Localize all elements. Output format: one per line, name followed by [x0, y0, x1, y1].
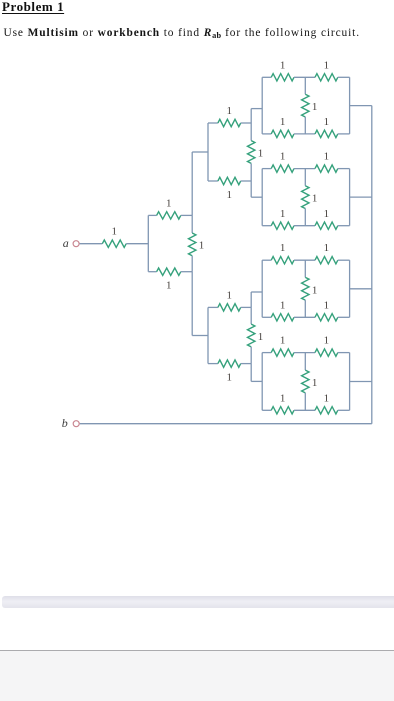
cell 3 wire vertical resistor to bottom node: [304, 300, 306, 317]
right bus wire: [371, 106, 373, 424]
resistor (1 ohm, level-2 lower lower branch): [218, 360, 241, 367]
resistor (1 ohm, level-2 upper upper branch): [218, 119, 241, 126]
cell 2 right edge wire: [349, 169, 351, 226]
svg-text:1: 1: [324, 242, 330, 254]
cell 3 bottom-left wire: [262, 316, 271, 318]
cell 4 bottom middle wire: [294, 409, 315, 411]
wire node to R4: [191, 215, 193, 233]
resistor (1 ohm, vertical level-2 lower): [248, 324, 255, 347]
svg-text:1: 1: [258, 331, 264, 343]
cell 1 top middle wire: [294, 76, 315, 78]
resistor R3 (1 ohm, lower branch level-1): [157, 268, 181, 275]
wire up to cell 1 input: [250, 109, 252, 123]
cell 1 right edge wire: [349, 77, 351, 134]
svg-text:1: 1: [324, 300, 330, 312]
resistor (1 ohm, cell 1 bottom-left): [271, 130, 294, 137]
resistor (1 ohm, cell 3 bottom-right): [315, 314, 338, 321]
cell 1 top-left wire: [262, 76, 271, 78]
svg-text:1: 1: [227, 372, 233, 384]
resistor (1 ohm, cell 3 bottom-left): [271, 314, 294, 321]
cell 3 top-right wire: [338, 259, 350, 261]
wire to branch resistor: [208, 180, 218, 182]
wire R2 to node: [181, 214, 192, 216]
wire bus to terminal b: [80, 423, 372, 425]
cell 1 bottom middle wire: [294, 133, 315, 135]
resistor R1 (1 ohm, series from a): [102, 240, 126, 247]
wire a to R1: [80, 243, 103, 245]
wire to branch resistor: [208, 306, 218, 308]
wire node to vertical resistor: [250, 123, 252, 141]
wire down to cell 4 input: [250, 364, 252, 382]
cell 2 bottom-right wire: [338, 225, 350, 227]
cell 1 wire top node to vertical resistor: [304, 77, 306, 94]
jog wire to level-2 lower split: [192, 335, 208, 337]
resistor (1 ohm, cell 4 bottom-left): [271, 407, 294, 414]
wire up to level-2 upper: [191, 152, 193, 215]
resistor (1 ohm, cell 2 bottom-left): [271, 222, 294, 229]
cell 1 top-right wire: [338, 76, 350, 78]
svg-text:1: 1: [280, 208, 286, 220]
wire to R2: [148, 214, 156, 216]
wire down to level-2 lower: [191, 272, 193, 336]
resistor (1 ohm, cell 1 bottom-right): [315, 130, 338, 137]
wire branch resistor to node: [241, 306, 252, 308]
cell 3 wire top node to vertical resistor: [304, 260, 306, 277]
wire R4 to node: [191, 256, 193, 272]
cell 4 right edge wire: [349, 353, 351, 411]
wire to branch resistor: [208, 363, 218, 365]
svg-text:1: 1: [324, 208, 330, 220]
cell 4 top-left wire: [262, 352, 271, 354]
resistor (1 ohm, cell 2 top-left): [271, 165, 294, 172]
svg-text:1: 1: [280, 242, 286, 254]
resistor (1 ohm, cell 4 bottom-right): [315, 407, 338, 414]
cell 1 bottom-right wire: [338, 133, 350, 135]
cell 4 output stub wire: [350, 381, 372, 383]
resistor (1 ohm, cell 2 vertical): [302, 186, 309, 209]
cell 4 top-right wire: [338, 352, 350, 354]
svg-text:1: 1: [227, 189, 233, 201]
jog wire to cell 1: [251, 108, 262, 110]
cell 3 top-left wire: [262, 259, 271, 261]
resistor (1 ohm, level-2 upper lower branch): [218, 177, 241, 184]
level-1 split vertical wire: [147, 215, 149, 271]
wire vertical resistor to node: [250, 163, 252, 181]
level-2 upper split vertical wire: [207, 123, 209, 181]
resistor (1 ohm, cell 2 top-right): [315, 165, 338, 172]
resistor (1 ohm, vertical level-2 upper): [248, 141, 255, 164]
cell 3 right edge wire: [349, 260, 351, 317]
svg-text:1: 1: [312, 284, 318, 296]
cell 2 output stub wire: [350, 196, 372, 198]
resistor (1 ohm, cell 4 top-right): [315, 349, 338, 356]
svg-text:1: 1: [312, 377, 318, 389]
svg-text:1: 1: [166, 197, 172, 209]
jog wire to cell 3: [251, 291, 262, 293]
svg-text:b: b: [62, 416, 68, 430]
resistor (1 ohm, cell 4 top-left): [271, 349, 294, 356]
wire vertical resistor to node: [250, 347, 252, 364]
svg-text:1: 1: [280, 300, 286, 312]
svg-text:1: 1: [258, 148, 264, 160]
svg-text:1: 1: [199, 239, 205, 251]
resistor (1 ohm, cell 3 top-left): [271, 257, 294, 264]
svg-text:1: 1: [280, 116, 286, 128]
cell 4 bottom-left wire: [262, 409, 271, 411]
svg-text:1: 1: [227, 289, 233, 301]
cell 2 bottom middle wire: [294, 225, 315, 227]
cell 2 top-left wire: [262, 168, 271, 170]
cell 1 bottom-left wire: [262, 133, 271, 135]
wire node to vertical resistor: [250, 307, 252, 324]
svg-text:1: 1: [280, 151, 286, 163]
resistor (1 ohm, cell 1 top-left): [271, 74, 294, 81]
cell 2 left edge wire: [261, 169, 263, 226]
svg-text:1: 1: [312, 193, 318, 205]
wire R1 to level-1 split: [126, 243, 148, 245]
cell 2 top middle wire: [294, 168, 315, 170]
cell 2 wire top node to vertical resistor: [304, 169, 306, 186]
svg-text:1: 1: [324, 393, 330, 405]
cell 3 output stub wire: [350, 288, 372, 290]
cell 4 top middle wire: [294, 352, 315, 354]
svg-text:1: 1: [280, 335, 286, 347]
wire to branch resistor: [208, 122, 218, 124]
terminal a circle: [73, 241, 79, 247]
jog wire to cell 4: [251, 380, 262, 382]
cell 3 bottom-right wire: [338, 316, 350, 318]
cell 3 left edge wire: [261, 260, 263, 317]
resistor (1 ohm, cell 3 vertical): [302, 277, 309, 300]
cell 4 wire top node to vertical resistor: [304, 353, 306, 371]
wire down to cell 2 input: [250, 181, 252, 197]
cell 2 top-right wire: [338, 168, 350, 170]
jog wire to level-2 upper split: [192, 151, 208, 153]
level-2 lower split vertical wire: [207, 307, 209, 363]
cell 1 left edge wire: [261, 77, 263, 134]
cell 3 top middle wire: [294, 259, 315, 261]
svg-text:1: 1: [280, 393, 286, 405]
cell 4 left edge wire: [261, 353, 263, 411]
wire to R3: [148, 271, 156, 273]
svg-text:1: 1: [312, 101, 318, 113]
wire branch resistor to node: [241, 180, 252, 182]
svg-text:1: 1: [324, 335, 330, 347]
resistor (1 ohm, cell 1 vertical): [302, 94, 309, 117]
cell 2 wire vertical resistor to bottom node: [304, 209, 306, 226]
cell 2 bottom-left wire: [262, 225, 271, 227]
resistor (1 ohm, cell 2 bottom-right): [315, 222, 338, 229]
wire R3 to node: [181, 271, 192, 273]
svg-text:1: 1: [280, 59, 286, 71]
jog wire to cell 2: [251, 196, 262, 198]
svg-text:1: 1: [324, 116, 330, 128]
cell 3 bottom middle wire: [294, 316, 315, 318]
cell 1 wire vertical resistor to bottom node: [304, 117, 306, 134]
svg-text:1: 1: [324, 151, 330, 163]
resistor R4 (1 ohm, vertical level-1): [189, 233, 196, 256]
cell 4 wire vertical resistor to bottom node: [304, 393, 306, 410]
svg-text:1: 1: [111, 226, 117, 238]
svg-text:1: 1: [227, 105, 233, 117]
cell 1 output stub wire: [350, 105, 372, 107]
terminal b circle: [73, 421, 79, 427]
resistor (1 ohm, level-2 lower upper branch): [218, 304, 241, 311]
wire up to cell 3 input: [250, 292, 252, 307]
svg-text:a: a: [63, 236, 69, 250]
svg-text:1: 1: [166, 280, 172, 292]
svg-text:1: 1: [324, 59, 330, 71]
cell 4 bottom-right wire: [338, 409, 350, 411]
resistor R2 (1 ohm, upper branch level-1): [157, 212, 181, 219]
resistor (1 ohm, cell 1 top-right): [315, 74, 338, 81]
wire branch resistor to node: [241, 122, 252, 124]
resistor (1 ohm, cell 3 top-right): [315, 257, 338, 264]
wire branch resistor to node: [241, 363, 252, 365]
resistor (1 ohm, cell 4 vertical): [302, 370, 309, 393]
